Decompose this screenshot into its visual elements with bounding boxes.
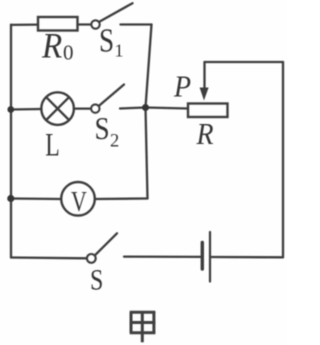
svg-text:S: S (90, 263, 103, 296)
svg-text:R: R (41, 26, 62, 66)
svg-text:0: 0 (63, 41, 74, 65)
svg-text:S: S (95, 112, 110, 146)
svg-text:R: R (196, 118, 214, 152)
svg-text:V: V (71, 187, 87, 217)
svg-text:P: P (173, 70, 191, 104)
svg-text:L: L (45, 127, 60, 164)
svg-text:1: 1 (115, 41, 124, 61)
svg-text:2: 2 (110, 132, 119, 152)
svg-text:S: S (99, 22, 114, 60)
